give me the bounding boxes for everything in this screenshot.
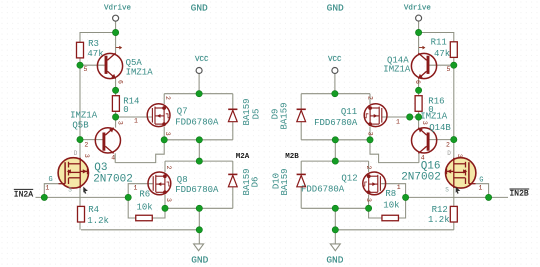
node IN2B/Q12 gate tap [402, 194, 408, 200]
wire mid rail A (M2A upper) [164, 139, 233, 141]
svg-text:2: 2 [365, 166, 372, 170]
svg-text:FDD6780A: FDD6780A [314, 118, 358, 128]
wire right vertical rail (R11 to Q16 drain) [453, 65, 455, 158]
mosfet Q7 FDD6780A [147, 104, 170, 127]
svg-text:0: 0 [123, 105, 128, 115]
svg-text:2: 2 [446, 142, 450, 149]
node R14 bottom junction [112, 114, 118, 120]
svg-text:1: 1 [396, 119, 400, 126]
wire top rail A (VCC rail) [164, 93, 233, 95]
node R11/Q14A base junction [451, 62, 457, 68]
node Q14B base junction [451, 136, 457, 142]
wire Q12 source pin [368, 195, 370, 209]
svg-text:D9: D9 [270, 109, 280, 120]
wire Q14B collector pin down [418, 153, 420, 162]
svg-text:Q5B: Q5B [72, 121, 89, 131]
wire Q14B collector step to Q11 source rail [370, 140, 419, 163]
wire bottom rail to GND junction A [198, 208, 200, 230]
wire Q8 source pin [164, 195, 166, 209]
node Vdrive-B junction [415, 29, 421, 35]
wire Q16 gate tap [476, 184, 489, 198]
svg-text:2: 2 [165, 166, 172, 170]
svg-text:2: 2 [84, 142, 88, 149]
wire R14 junction to Q7 gate [116, 116, 153, 118]
node Q5A emitter/R14 junction [112, 87, 118, 93]
node IN2A/Q8 gate tap [125, 194, 131, 200]
svg-text:2N7002: 2N7002 [93, 173, 133, 185]
wire R14 bottom lead [115, 111, 117, 117]
svg-text:G: G [49, 176, 53, 184]
mosfet Q8 FDD6780A [148, 172, 171, 195]
svg-text:IN2A: IN2A [14, 190, 33, 199]
svg-text:10k: 10k [383, 200, 399, 210]
svg-text:Q3: Q3 [94, 162, 107, 174]
node GND junction A [196, 227, 202, 233]
wire M2B rail [301, 160, 368, 162]
wire bottom rail A [165, 207, 233, 209]
wire Q14B emitter pin up [418, 117, 420, 128]
svg-text:D5: D5 [251, 109, 261, 120]
wire Q12 gate and R8 right lead [381, 184, 405, 218]
wire GND stub A [198, 230, 200, 244]
wire R14 top lead [115, 90, 117, 96]
resistor R4 [78, 206, 85, 222]
wire R8 left lead [369, 208, 382, 218]
svg-text:IMZ1A: IMZ1A [126, 68, 154, 78]
svg-text:3: 3 [165, 198, 172, 202]
wire Q5B emitter pin up [115, 117, 117, 128]
wire D5 bottom lead [232, 122, 234, 140]
svg-text:1: 1 [134, 118, 138, 125]
wire Q16 drain-source through line [453, 158, 455, 230]
mosfet Q16 2N7002 (highlighted) [446, 158, 476, 188]
node Q8 source junction [162, 205, 168, 211]
svg-text:1.2k: 1.2k [428, 215, 450, 225]
mosfet Q12 FDD6780A [363, 172, 386, 195]
svg-text:Vdrive: Vdrive [104, 4, 131, 12]
wire R11 bottom lead [453, 57, 455, 65]
wire Q12 drain pin [368, 161, 370, 172]
wire M2A rail [165, 160, 233, 162]
node Q11 source junction [367, 137, 373, 143]
diode D10 BA159 [297, 174, 306, 186]
svg-text:47k: 47k [434, 49, 450, 59]
node R3/Q5A base junction [77, 62, 83, 68]
svg-text:Q7: Q7 [177, 106, 188, 116]
wire VCC stub B [334, 74, 336, 94]
wire Q14B base tap [428, 139, 454, 141]
wire D9 top lead [300, 94, 302, 110]
wire Q14A emitter to R16 junction [418, 79, 420, 90]
transistor Q14B (IMZ1A) [412, 127, 437, 153]
svg-text:1: 1 [397, 184, 401, 191]
wire Q14A base [428, 64, 454, 66]
node Q12 source junction [365, 205, 371, 211]
svg-text:BA159: BA159 [279, 102, 289, 129]
svg-text:D6: D6 [251, 177, 261, 188]
svg-text:R3: R3 [88, 39, 99, 49]
svg-text:VCC: VCC [328, 56, 342, 64]
svg-text:R11: R11 [431, 38, 447, 48]
wire Q3 gate tap [44, 184, 58, 198]
wire Q7 drain to top rail [163, 94, 165, 104]
svg-text:1.2k: 1.2k [87, 216, 109, 226]
svg-text:3: 3 [366, 132, 373, 136]
wire R3 bottom lead [79, 58, 81, 65]
svg-text:D: D [74, 150, 78, 157]
svg-text:FDD6780A: FDD6780A [175, 117, 219, 127]
svg-text:R6: R6 [139, 189, 150, 199]
svg-text:GND: GND [326, 254, 343, 265]
node VCC-A junction [196, 91, 202, 97]
svg-text:5: 5 [84, 66, 88, 73]
wire M2A link vertical [198, 140, 200, 161]
svg-text:Q11: Q11 [341, 107, 357, 117]
svg-text:1: 1 [45, 185, 49, 192]
wire VCC stub A [198, 74, 200, 94]
mosfet Q3 2N7002 (highlighted) [58, 158, 88, 188]
wire R6 right lead [152, 208, 165, 218]
wire Q5B collector pin down [114, 153, 116, 162]
wire Q5A base [80, 64, 105, 66]
svg-text:R8: R8 [385, 189, 396, 199]
resistor R8 [382, 215, 399, 221]
wire Q5A collector pin [115, 33, 117, 53]
wire D5 top lead [232, 94, 234, 110]
svg-text:5: 5 [447, 66, 451, 73]
node bottom rail junction B [332, 205, 338, 211]
svg-text:D: D [447, 150, 451, 157]
node IN2A gate tap [41, 194, 47, 200]
wire D10 top lead [300, 161, 302, 174]
resistor R12 [450, 206, 457, 222]
node Q7 source junction [161, 137, 167, 143]
wire left vertical rail (R3 to Q3 drain) [79, 65, 81, 158]
resistor R3 [77, 42, 84, 58]
wire D6 bottom lead [232, 187, 234, 208]
wire Vdrive stub A [115, 21, 117, 32]
svg-text:6: 6 [414, 80, 421, 84]
svg-text:10k: 10k [137, 202, 153, 212]
svg-text:2: 2 [164, 96, 171, 100]
node M2A rail junction [196, 158, 202, 164]
wire bottom rail to GND junction B [334, 208, 336, 230]
node Q5B base junction [77, 136, 83, 142]
resistor R11 [450, 42, 457, 58]
wire GND horizontal B [335, 229, 454, 231]
diode D5 BA159 [228, 109, 237, 121]
diode D9 BA159 [297, 109, 306, 121]
svg-text:FDD6780A: FDD6780A [301, 184, 345, 194]
node M2B rail junction [332, 158, 338, 164]
wire Q3 drain-source through line [79, 158, 81, 230]
wire GND horizontal A [81, 229, 199, 231]
node Vdrive-A junction [112, 29, 118, 35]
svg-text:R4: R4 [88, 205, 99, 215]
svg-text:2N7002: 2N7002 [401, 171, 441, 183]
wire Q8 gate and R6 left lead [128, 184, 153, 218]
node IN2B gate tap [485, 194, 491, 200]
wire M2B link vertical [334, 140, 336, 161]
wire Q5B collector step to Q7 source rail [115, 140, 164, 163]
node R16 bottom junction [415, 114, 421, 120]
transistor Q5A (IMZ1A) [97, 53, 122, 79]
svg-text:M2B: M2B [285, 153, 299, 161]
svg-text:M2A: M2A [236, 153, 250, 161]
svg-text:FDD6780A: FDD6780A [175, 185, 219, 195]
svg-text:S: S [68, 186, 72, 193]
wire R16 top lead [418, 90, 420, 96]
svg-text:R12: R12 [432, 205, 448, 215]
node Q14A emitter/R16 junction [415, 87, 421, 93]
svg-text:IN2B: IN2B [510, 190, 529, 199]
wire IN2A rail [36, 196, 129, 198]
node VCC-B junction [332, 91, 338, 97]
wire Vdrive junction to R3 top [80, 33, 116, 43]
wire Q5B base tap [80, 139, 104, 141]
wire Q7 source pin [163, 126, 165, 139]
wire R16 bottom lead [418, 111, 420, 117]
ground symbol B [330, 244, 340, 251]
svg-text:1: 1 [134, 184, 138, 191]
resistor R16 [415, 96, 422, 112]
svg-text:4: 4 [111, 154, 115, 161]
node bottom rail junction A [196, 205, 202, 211]
svg-text:GND: GND [191, 254, 208, 265]
svg-text:S: S [445, 186, 449, 193]
wire D9 bottom lead [300, 122, 302, 140]
wire Q11 drain to top rail [369, 94, 371, 104]
svg-text:3: 3 [421, 121, 428, 125]
wire D10 bottom lead [300, 187, 302, 208]
mosfet Q11 FDD6780A [364, 104, 387, 127]
svg-text:IMZ1A: IMZ1A [70, 110, 98, 120]
diode D6 BA159 [228, 174, 237, 186]
node mid rail junction B [332, 137, 338, 143]
transistor Q14A (IMZ1A) [411, 53, 436, 79]
node Q11 gate wire junction [407, 114, 413, 120]
svg-text:3: 3 [117, 121, 124, 125]
wire bottom rail B [301, 207, 368, 209]
svg-text:3: 3 [365, 198, 372, 202]
wire R16 junction to Q11 gate [382, 116, 419, 118]
svg-text:GND: GND [327, 3, 344, 14]
wire mid rail B (M2B upper) [301, 139, 370, 141]
wire IN2B rail [406, 196, 508, 198]
node GND junction B [332, 227, 338, 233]
node mid rail junction A [196, 137, 202, 143]
wire Q8 drain pin [164, 161, 166, 172]
svg-text:D10: D10 [272, 173, 282, 189]
ground symbol A [194, 244, 204, 251]
svg-text:3: 3 [164, 132, 171, 136]
svg-text:3: 3 [83, 154, 90, 158]
svg-text:Q14B: Q14B [429, 123, 451, 133]
svg-text:GND: GND [191, 3, 208, 14]
wire Q14A collector pin [418, 33, 420, 53]
svg-text:Vdrive: Vdrive [404, 4, 431, 12]
svg-text:IMZ1A: IMZ1A [383, 65, 411, 75]
svg-text:6: 6 [117, 80, 124, 84]
wire Q11 source pin [369, 126, 371, 139]
svg-text:BA159: BA159 [280, 168, 290, 195]
wire D6 top lead [232, 161, 234, 174]
svg-text:3: 3 [456, 154, 463, 158]
svg-text:1: 1 [479, 184, 483, 191]
svg-text:Q8: Q8 [177, 175, 188, 185]
wire top rail B (VCC rail) [301, 93, 370, 95]
resistor R6 [136, 215, 153, 221]
svg-text:Q12: Q12 [341, 174, 357, 184]
wire Vdrive stub B [418, 21, 420, 32]
resistor R14 [112, 96, 119, 112]
wire Q5A emitter to R14 junction [115, 79, 117, 90]
svg-text:VCC: VCC [195, 56, 209, 64]
svg-text:2: 2 [366, 96, 373, 100]
wire Vdrive junction to R11 top [419, 33, 454, 42]
transistor Q5B (IMZ1A) [95, 127, 120, 153]
wire GND stub B [334, 230, 336, 244]
